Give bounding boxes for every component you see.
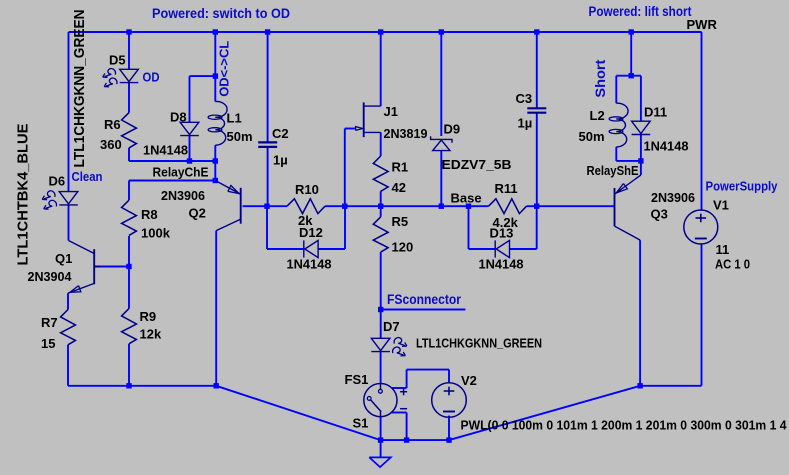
transistor Q3 2N3906 pnp — [614, 188, 616, 226]
svg-text:D12: D12 — [299, 225, 323, 240]
wire Q2 collector drop — [215, 231, 217, 386]
wire D6 branch from rail — [68, 32, 70, 192]
wire D12 bypass loop — [266, 206, 268, 249]
wire D7 cathode to switch S1 — [380, 352, 382, 384]
inductor L2 — [616, 103, 628, 147]
svg-text:2N3819: 2N3819 — [384, 126, 428, 141]
jfet J1 2N3819 — [363, 102, 365, 137]
svg-text:Short: Short — [592, 59, 608, 97]
svg-text:RelayChE: RelayChE — [153, 165, 209, 180]
svg-text:2N3904: 2N3904 — [28, 269, 73, 284]
junction D9 / mid rail — [439, 204, 444, 209]
svg-text:11: 11 — [716, 242, 730, 257]
LED D7 — [371, 338, 390, 350]
svg-text:50m: 50m — [227, 129, 253, 144]
junction Q2 base / C2 / D12 — [264, 204, 269, 209]
junction L2 top bar — [629, 73, 634, 78]
svg-text:RelayShE: RelayShE — [587, 163, 639, 178]
wire FSconnector label stub — [381, 309, 466, 311]
wire J1 gate drop — [344, 129, 346, 207]
junction Q1 base / R8 / R9 — [126, 264, 131, 269]
svg-text:J1: J1 — [384, 104, 398, 119]
svg-text:C2: C2 — [272, 126, 289, 141]
wire S1 bottom to ground rail — [380, 417, 382, 440]
LED D6 — [59, 192, 78, 204]
wire R5 down to D7 — [380, 206, 382, 217]
svg-text:R7: R7 — [41, 315, 58, 330]
svg-text:15: 15 — [41, 336, 55, 351]
junction node FSconnector — [378, 307, 383, 312]
svg-text:D13: D13 — [490, 226, 514, 241]
junction D8 top — [213, 73, 218, 78]
svg-text:LTL1CHKGKNN_GREEN: LTL1CHKGKNN_GREEN — [71, 10, 88, 168]
junction R9 bottom rail — [126, 383, 131, 388]
LED D5 — [120, 69, 139, 81]
wire S1 control minus to rail — [392, 412, 407, 414]
wire J1 source through R1 — [380, 132, 382, 156]
svg-text:1µ: 1µ — [273, 153, 288, 168]
svg-text:V1: V1 — [713, 198, 729, 213]
wire D8 bottom drop — [189, 136, 191, 161]
svg-text:L2: L2 — [590, 108, 605, 123]
svg-text:R5: R5 — [392, 214, 409, 229]
svg-text:PWR: PWR — [687, 17, 718, 32]
wire D8 top riser — [189, 76, 191, 122]
svg-text:R11: R11 — [495, 181, 518, 196]
svg-text:PWL(0 0 100m 0 101m 1 200m 1 2: PWL(0 0 100m 0 101m 1 200m 1 201m 0 300m… — [461, 418, 788, 433]
svg-text:D9: D9 — [444, 122, 461, 137]
svg-text:LTL1CHTBK4_BLUE: LTL1CHTBK4_BLUE — [14, 124, 31, 266]
wire D6 cathode to Q1 collector — [68, 205, 70, 241]
wire node RelayChE stub — [214, 161, 216, 181]
svg-text:EDZV7_5B: EDZV7_5B — [442, 157, 512, 172]
wire R8 riser — [128, 181, 130, 201]
wire C3 branch from rail — [536, 32, 538, 108]
junction node Base / R11 left — [466, 204, 471, 209]
junction PWR rail / C2 branch — [265, 29, 270, 34]
svg-text:100k: 100k — [141, 226, 171, 241]
svg-text:R10: R10 — [295, 182, 319, 197]
svg-text:D11: D11 — [644, 105, 667, 120]
wire D9 branch from rail — [440, 32, 442, 136]
svg-text:1N4148: 1N4148 — [143, 143, 188, 158]
svg-text:Q1: Q1 — [55, 251, 72, 266]
transistor Q1 2N3904 npn — [93, 249, 95, 284]
wire bottom right rail — [640, 385, 701, 387]
wire R9 branch — [128, 267, 130, 309]
zener D9 — [433, 140, 450, 151]
wire J1 drain from rail — [380, 32, 382, 106]
junction S1 control minus — [404, 437, 409, 442]
capacitor C2 — [258, 141, 277, 143]
junction PWR rail / L1 branch — [213, 29, 218, 34]
voltage source V1 — [684, 210, 718, 244]
svg-text:D5: D5 — [109, 53, 126, 68]
wire RelayChE horizontal to R8 — [129, 180, 215, 182]
svg-text:2N3906: 2N3906 — [161, 188, 205, 203]
voltage source V2 — [432, 383, 467, 418]
svg-text:FS1: FS1 — [345, 372, 369, 387]
wire Q3 collector drop — [639, 240, 641, 386]
resistor R11 — [489, 199, 527, 214]
svg-text:V2: V2 — [461, 373, 477, 388]
wire Q1 emitter through R7 — [67, 293, 69, 309]
junction Q3 collector rail — [637, 383, 642, 388]
wire diagonal left to ground — [216, 386, 380, 440]
wire Q3 emitter stub — [640, 161, 642, 175]
svg-text:120: 120 — [392, 240, 414, 255]
svg-text:Base: Base — [451, 191, 482, 206]
junction C3 bottom / R11 right — [534, 204, 539, 209]
diode D12 — [303, 240, 305, 257]
junction node RelayChE — [213, 178, 218, 183]
svg-text:1N4148: 1N4148 — [287, 257, 332, 272]
svg-text:Clean: Clean — [72, 169, 103, 184]
svg-text:Powered: lift short: Powered: lift short — [589, 4, 692, 19]
svg-text:42: 42 — [392, 180, 406, 195]
resistor R7 — [61, 310, 76, 345]
switch control plus mark — [400, 391, 407, 393]
wire D5 branch from rail — [128, 32, 130, 69]
svg-text:R8: R8 — [141, 207, 158, 222]
junction R1-R5 / mid rail — [378, 204, 383, 209]
svg-text:1µ: 1µ — [518, 116, 533, 131]
svg-text:1N4148: 1N4148 — [644, 139, 689, 154]
wire bottom center rail — [381, 439, 449, 441]
switch control minus mark — [400, 408, 407, 410]
wire Q1 base — [94, 266, 129, 268]
junction node RelayShE — [638, 158, 643, 163]
resistor R5 — [373, 217, 388, 252]
svg-text:LTL1CHKGKNN_GREEN: LTL1CHKGKNN_GREEN — [416, 336, 542, 351]
svg-text:FSconnector: FSconnector — [387, 292, 462, 307]
wire diagonal right to V2 node — [449, 386, 640, 440]
resistor R1 — [373, 156, 388, 191]
wire L1 branch from rail — [214, 32, 216, 102]
ground — [380, 440, 382, 457]
wire bottom left rail — [68, 385, 216, 387]
wire L2 relay branch from rail — [630, 32, 632, 76]
junction L1 bottom — [213, 158, 218, 163]
switch FS1 S1 — [364, 384, 397, 417]
resistor R6 — [122, 113, 137, 148]
inductor L1 — [215, 101, 227, 145]
svg-text:AC 1 0: AC 1 0 — [715, 257, 750, 272]
wire L2 leads — [615, 76, 617, 104]
junction D8 bottom — [187, 158, 192, 163]
wire relay loop top bar — [616, 75, 641, 77]
svg-text:L1: L1 — [227, 111, 242, 126]
wire D13 bypass loop — [468, 206, 470, 249]
diode D8 — [180, 122, 199, 134]
svg-text:C3: C3 — [516, 91, 533, 106]
svg-text:D7: D7 — [383, 319, 400, 334]
wire D11 leads — [640, 76, 642, 122]
svg-text:PowerSupply: PowerSupply — [706, 179, 779, 194]
svg-text:12k: 12k — [140, 327, 162, 342]
wire L1 bottom — [214, 145, 216, 161]
svg-text:Q2: Q2 — [189, 206, 206, 221]
resistor R8 — [122, 200, 137, 235]
svg-text:S1: S1 — [353, 416, 369, 431]
junction PWR rail / L2 branch — [629, 29, 634, 34]
wire V1 branch right — [701, 32, 703, 211]
junction V2 bottom — [446, 437, 451, 442]
junction PWR rail / D9 branch — [439, 29, 444, 34]
junction Q2 collector rail corner — [214, 383, 219, 388]
diode D11 — [632, 121, 651, 133]
junction PWR rail / C3 branch — [534, 29, 539, 34]
resistor R10 — [287, 199, 325, 214]
wire V1 bottom — [701, 244, 703, 386]
wire C2 branch from rail — [267, 32, 269, 142]
wire relay loop bottom bar RelayShE — [616, 160, 641, 162]
wire D5 cathode through R6 — [128, 83, 130, 113]
svg-text:Powered: switch to OD: Powered: switch to OD — [152, 6, 290, 21]
junction PWR rail / J1 drain — [378, 29, 383, 34]
junction ground node — [378, 437, 383, 442]
junction PWR rail / D5 branch — [126, 29, 131, 34]
svg-text:D8: D8 — [170, 110, 187, 125]
svg-text:OD<->CL: OD<->CL — [217, 41, 232, 97]
wire S1 control plus to V2 — [392, 387, 407, 389]
svg-text:OD: OD — [143, 70, 160, 85]
junction J1 gate / mid rail — [342, 204, 347, 209]
svg-text:2N3906: 2N3906 — [651, 190, 695, 205]
wire top supply rail PWR — [69, 31, 702, 33]
wire C2 bottom to base node — [267, 148, 269, 206]
svg-text:D6: D6 — [49, 174, 66, 189]
wire R6 bottom to L1 node — [129, 160, 215, 162]
transistor Q2 2N3906 pnp — [240, 188, 242, 224]
svg-text:R1: R1 — [392, 160, 409, 175]
wire mid rail Q2 base to Q3 base — [243, 205, 288, 207]
svg-text:R6: R6 — [104, 117, 121, 132]
wire V2 bottom — [448, 416, 450, 441]
resistor R9 — [122, 309, 137, 344]
svg-text:R9: R9 — [140, 309, 157, 324]
diode D13 — [494, 240, 496, 257]
svg-text:50m: 50m — [579, 129, 605, 144]
svg-text:360: 360 — [100, 137, 122, 152]
svg-text:Q3: Q3 — [651, 207, 668, 222]
capacitor C3 — [527, 107, 546, 109]
svg-text:1N4148: 1N4148 — [479, 257, 524, 272]
